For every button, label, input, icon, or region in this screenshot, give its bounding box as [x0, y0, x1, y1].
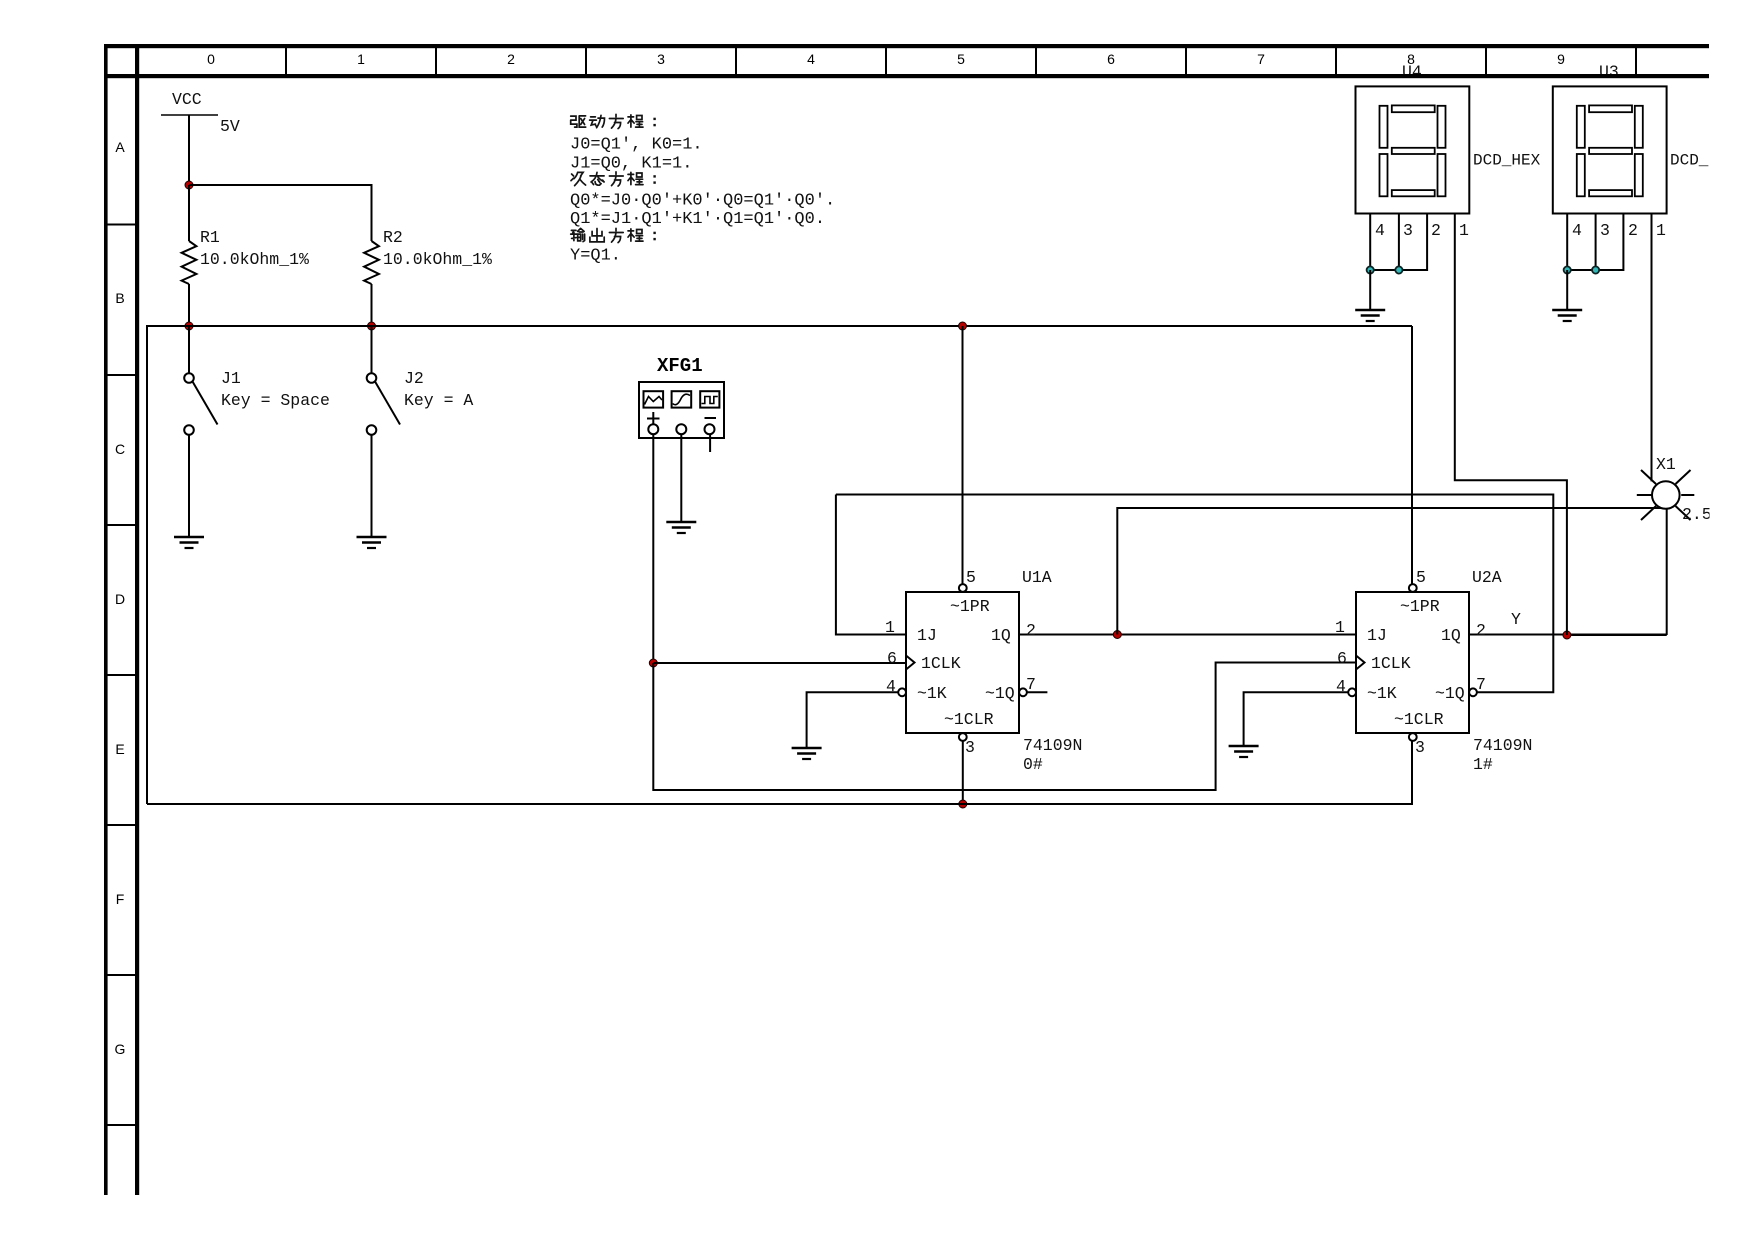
svg-text:1CLK: 1CLK: [1371, 654, 1411, 673]
node Q0 junction: [1113, 631, 1121, 639]
row letters: [115, 139, 126, 1057]
resistor R2: [364, 241, 379, 284]
svg-text:1: 1: [885, 618, 895, 637]
svg-text:3: 3: [1600, 221, 1610, 240]
svg-text:J1: J1: [221, 369, 241, 388]
wire U1A ~1K to ground: [807, 692, 899, 748]
sheet clip bottom: [0, 1196, 1754, 1240]
svg-text:E: E: [115, 741, 124, 757]
switch J2: [367, 326, 400, 537]
svg-text:4: 4: [1572, 221, 1582, 240]
wire XFG1 - terminal stub: [709, 433, 711, 452]
wire Q1' feedback (U2A pin7 to U1A 1J): [836, 495, 1553, 693]
svg-text:DCD_HEX: DCD_HEX: [1473, 152, 1541, 170]
label heading 输出方程:: [571, 228, 656, 242]
header column numbers: [207, 51, 1565, 67]
svg-text:10.0kOhm_1%: 10.0kOhm_1%: [383, 250, 492, 269]
wire U4 pin1 to Y node: [1455, 214, 1567, 636]
wire U1A ~1Q stub: [1028, 691, 1048, 693]
node CLR bus junction: [959, 800, 967, 808]
svg-text:74109N: 74109N: [1473, 736, 1532, 755]
svg-text:~1Q: ~1Q: [985, 684, 1015, 703]
svg-text:~1Q: ~1Q: [1435, 684, 1465, 703]
svg-text:U1A: U1A: [1022, 568, 1052, 587]
wire XFG1 + terminal down: [652, 433, 654, 663]
svg-text:Y=Q1.: Y=Q1.: [570, 247, 621, 266]
svg-text:7: 7: [1026, 675, 1036, 694]
svg-text:~1CLR: ~1CLR: [944, 710, 994, 729]
svg-text:1: 1: [357, 51, 365, 67]
wire U2A 1Q output Y: [1469, 634, 1667, 636]
power VCC: [161, 115, 218, 185]
switch J1: [184, 326, 217, 537]
header column separators: [286, 44, 1636, 74]
svg-text:9: 9: [1557, 51, 1565, 67]
svg-text:5: 5: [966, 568, 976, 587]
wire U1A ~1CLR down: [962, 741, 964, 804]
ground under J1: [174, 537, 204, 548]
ground under U1A ~1K: [792, 748, 822, 759]
wire CLK to U1A pin 6: [653, 662, 906, 664]
node U4 pin4 connector: [1367, 266, 1374, 273]
svg-text:A: A: [115, 139, 125, 155]
svg-text:J1=Q0, K1=1.: J1=Q0, K1=1.: [570, 155, 692, 174]
svg-text:1: 1: [1459, 221, 1469, 240]
svg-text:4: 4: [886, 677, 896, 696]
wire lamp bottom to Y node: [1567, 634, 1667, 636]
node R2/J2 junction: [368, 322, 376, 330]
svg-text:10.0kOhm_1%: 10.0kOhm_1%: [200, 250, 309, 269]
function generator XFG1: [639, 382, 724, 438]
svg-text:J2: J2: [404, 369, 424, 388]
wire U4 ground stem: [1369, 270, 1371, 310]
wire VCC to R2: [189, 185, 372, 241]
svg-text:4: 4: [807, 51, 815, 67]
seven segment display U3: [1553, 86, 1667, 213]
svg-text:~1PR: ~1PR: [950, 597, 990, 616]
wire preset bus y=326: [189, 325, 1412, 327]
node U3 pin3 connector: [1592, 266, 1599, 273]
wire Q0 to lamp (up and over): [1117, 508, 1666, 635]
svg-text:74109N: 74109N: [1023, 736, 1082, 755]
lamp X1: [1637, 470, 1695, 520]
svg-text:F: F: [116, 891, 125, 907]
svg-text:3: 3: [657, 51, 665, 67]
wire U3 ground stem: [1566, 270, 1568, 310]
ground under J2: [357, 537, 387, 548]
svg-text:2: 2: [1026, 621, 1036, 640]
svg-text:XFG1: XFG1: [657, 355, 703, 377]
svg-text:J0=Q1', K0=1.: J0=Q1', K0=1.: [570, 136, 703, 155]
svg-text:3: 3: [1403, 221, 1413, 240]
svg-text:Q0*=J0·Q0'+K0'·Q0=Q1'·Q0'.: Q0*=J0·Q0'+K0'·Q0=Q1'·Q0'.: [570, 192, 835, 211]
svg-text:2: 2: [1628, 221, 1638, 240]
svg-text:X1: X1: [1656, 455, 1676, 474]
node VCC junction: [185, 181, 193, 189]
svg-text:D: D: [115, 591, 125, 607]
svg-text:5V: 5V: [220, 117, 240, 136]
svg-text:6: 6: [887, 649, 897, 668]
svg-text:Y: Y: [1511, 610, 1521, 629]
ground under XFG1: [666, 522, 696, 533]
node Y junction: [1563, 631, 1571, 639]
sheet clip right: [1710, 0, 1754, 1240]
svg-text:C: C: [115, 441, 125, 457]
svg-text:1Q: 1Q: [991, 626, 1011, 645]
label heading 驱动方程:: [571, 114, 656, 128]
svg-text:Q1*=J1·Q1'+K1'·Q1=Q1'·Q0.: Q1*=J1·Q1'+K1'·Q1=Q1'·Q0.: [570, 210, 825, 229]
svg-text:~1CLR: ~1CLR: [1394, 710, 1444, 729]
svg-text:U4: U4: [1402, 63, 1422, 82]
svg-text:~1K: ~1K: [1367, 684, 1397, 703]
svg-text:U3: U3: [1599, 63, 1619, 82]
svg-text:1J: 1J: [1367, 626, 1387, 645]
wire CLK bottom route to U2A pin 6: [653, 663, 1356, 791]
node U3 pin4 connector: [1564, 266, 1571, 273]
svg-text:5: 5: [957, 51, 965, 67]
svg-text:6: 6: [1107, 51, 1115, 67]
wire VCC to R1: [188, 185, 190, 241]
svg-text:4: 4: [1336, 677, 1346, 696]
svg-text:3: 3: [1415, 738, 1425, 757]
node CLR bus junction U1A pin5: [959, 322, 967, 330]
svg-text:0#: 0#: [1023, 755, 1043, 774]
node U4 pin3 connector: [1395, 266, 1402, 273]
wire R2 bottom lead: [371, 284, 373, 326]
wire U2A ~1K to ground: [1244, 692, 1349, 746]
U4 pin wires: [1370, 214, 1427, 271]
ground under U4: [1355, 310, 1385, 321]
wire R1 bottom lead: [188, 284, 190, 326]
svg-text:1: 1: [1335, 618, 1345, 637]
U3 pin wires: [1567, 214, 1623, 271]
wire U3 pin1 down to lamp: [1651, 214, 1653, 482]
ground under U3: [1552, 310, 1582, 321]
svg-text:7: 7: [1257, 51, 1265, 67]
svg-text:B: B: [115, 290, 124, 306]
flip-flop U2A 74109N: [1348, 584, 1477, 741]
svg-text:2: 2: [1476, 621, 1486, 640]
svg-text:R2: R2: [383, 228, 403, 247]
wire bus down to U1A pin 5: [962, 326, 964, 585]
svg-text:1J: 1J: [917, 626, 937, 645]
node R1/J1 junction: [185, 322, 193, 330]
svg-text:~1K: ~1K: [917, 684, 947, 703]
wire U1A 1J input: [836, 495, 906, 635]
wire left branch to bottom bus: [147, 326, 189, 804]
wire XFG1 common terminal to ground: [680, 433, 682, 522]
ground under U2A ~1K: [1229, 746, 1259, 757]
label heading 次态方程:: [571, 172, 656, 186]
svg-text:3: 3: [965, 738, 975, 757]
wire bus down to U2A pin 5: [1411, 326, 1413, 585]
wire U1A 1Q to U2A 1J: [1019, 634, 1356, 636]
svg-text:4: 4: [1375, 221, 1385, 240]
wire clear bus y=804: [147, 741, 1412, 804]
svg-text:G: G: [115, 1041, 126, 1057]
svg-text:1CLK: 1CLK: [921, 654, 961, 673]
svg-text:R1: R1: [200, 228, 220, 247]
svg-text:1: 1: [1656, 221, 1666, 240]
node XFG1/CLK junction: [649, 659, 657, 667]
flip-flop U1A 74109N: [898, 584, 1027, 741]
row label separators: [104, 225, 135, 1126]
seven segment display U4: [1356, 86, 1470, 213]
svg-text:0: 0: [207, 51, 215, 67]
svg-text:~1PR: ~1PR: [1400, 597, 1440, 616]
svg-text:7: 7: [1476, 675, 1486, 694]
svg-text:2: 2: [507, 51, 515, 67]
resistor R1: [182, 241, 197, 284]
svg-text:Key = Space: Key = Space: [221, 391, 330, 410]
svg-text:Key = A: Key = A: [404, 391, 473, 410]
svg-text:6: 6: [1337, 649, 1347, 668]
svg-text:5: 5: [1416, 568, 1426, 587]
svg-text:2: 2: [1431, 221, 1441, 240]
svg-text:U2A: U2A: [1472, 568, 1502, 587]
svg-text:1#: 1#: [1473, 755, 1493, 774]
svg-text:VCC: VCC: [172, 90, 202, 109]
svg-text:1Q: 1Q: [1441, 626, 1461, 645]
